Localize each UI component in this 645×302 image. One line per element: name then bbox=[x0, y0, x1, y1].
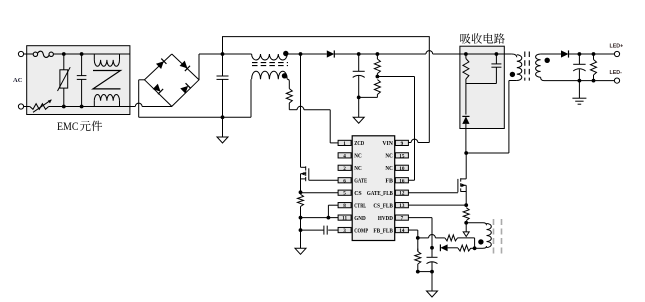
U1 pin 8 box bbox=[338, 203, 351, 208]
svg-text:LED-: LED- bbox=[610, 70, 623, 76]
U1 pin 9 box bbox=[395, 140, 408, 145]
bridge diode D4 bbox=[180, 83, 190, 93]
wire primary return bbox=[508, 81, 510, 154]
svg-text:13: 13 bbox=[399, 203, 405, 209]
wire bbox=[458, 237, 475, 239]
wire CTRL bbox=[328, 204, 338, 206]
svg-text:COMP: COMP bbox=[354, 227, 368, 234]
capacitor C3 out bbox=[578, 54, 580, 64]
node bbox=[430, 270, 434, 274]
svg-text:GATE_FLB: GATE_FLB bbox=[367, 190, 394, 197]
diode D7 bbox=[440, 244, 447, 251]
svg-text:CS: CS bbox=[354, 190, 362, 197]
svg-text:NC: NC bbox=[385, 165, 393, 172]
U1 pin 13 box bbox=[395, 203, 408, 208]
U1 pin 5 box bbox=[338, 190, 351, 195]
T2 aux winding bbox=[466, 222, 483, 224]
fuse F1 bbox=[33, 52, 37, 56]
earth ground bbox=[578, 81, 580, 99]
node bbox=[221, 52, 225, 56]
node bbox=[221, 115, 225, 119]
bridge diode D2 bbox=[180, 61, 190, 71]
U1 pin 7 box bbox=[395, 215, 408, 220]
svg-text:AC: AC bbox=[13, 77, 23, 84]
svg-text:VIN: VIN bbox=[382, 140, 393, 147]
capacitor C_comp bbox=[328, 229, 338, 231]
resistor R_cs bbox=[298, 194, 304, 206]
node bbox=[376, 52, 380, 56]
node bbox=[592, 52, 596, 56]
U1 pin 6 box bbox=[338, 178, 351, 183]
U1 pin 4 box bbox=[338, 153, 351, 158]
wire CS_FLB bbox=[408, 204, 466, 206]
wire bbox=[418, 271, 432, 273]
resistor R_out bbox=[593, 54, 595, 60]
U1 pin 12 box bbox=[395, 190, 408, 195]
svg-text:GATE: GATE bbox=[354, 178, 367, 185]
node bbox=[495, 52, 499, 56]
node bbox=[464, 203, 468, 207]
node bbox=[473, 246, 477, 250]
svg-text:8: 8 bbox=[343, 203, 346, 209]
wire HVDD bbox=[408, 217, 432, 219]
terminal LED- bbox=[614, 78, 619, 83]
node bbox=[430, 246, 434, 250]
node bbox=[299, 52, 303, 56]
wire bbox=[545, 53, 561, 55]
node T1 aux dot bbox=[282, 73, 287, 78]
svg-text:4: 4 bbox=[343, 153, 346, 159]
node bbox=[62, 105, 66, 109]
svg-text:16: 16 bbox=[399, 178, 405, 184]
node bbox=[299, 216, 303, 220]
wire FB_FLB bbox=[408, 229, 417, 231]
capacitor C2 bbox=[358, 54, 360, 71]
wire gnd bus bbox=[300, 207, 302, 249]
wire bbox=[287, 53, 327, 55]
capacitor CX1 bbox=[81, 54, 83, 76]
node bbox=[357, 96, 361, 100]
wire bbox=[24, 53, 34, 55]
node bbox=[464, 52, 468, 56]
node bbox=[299, 190, 303, 194]
terminal AC N bbox=[18, 104, 23, 109]
svg-text:EMC: EMC bbox=[57, 119, 79, 133]
wire gate FLB bbox=[408, 192, 458, 194]
wire CS bbox=[301, 192, 339, 194]
wire VIN rail bbox=[223, 37, 430, 143]
wire VIN bbox=[408, 142, 411, 144]
svg-text:NC: NC bbox=[354, 153, 362, 160]
mosfet Q2 bbox=[465, 153, 467, 179]
node bbox=[376, 75, 380, 79]
varistor RV1 bbox=[63, 54, 65, 70]
svg-text:NC: NC bbox=[385, 153, 393, 160]
node bbox=[62, 52, 66, 56]
T1 core bbox=[252, 62, 288, 64]
U1 pin 16 box bbox=[395, 178, 408, 183]
ground bbox=[222, 117, 224, 137]
capacitor C_sn bbox=[495, 54, 497, 64]
U1 pin 15 box bbox=[395, 153, 408, 158]
capacitor C1 bbox=[222, 54, 224, 76]
T2 aux core bbox=[493, 219, 495, 255]
inductor T1 primary bbox=[252, 54, 288, 60]
wire FB bbox=[377, 76, 414, 78]
node bbox=[80, 52, 84, 56]
node bbox=[357, 52, 361, 56]
svg-text:HVDD: HVDD bbox=[378, 215, 393, 222]
resistor R_a1 bbox=[445, 235, 458, 241]
bridge frame bbox=[145, 54, 200, 106]
T2 secondary bbox=[536, 54, 541, 77]
node bbox=[578, 52, 582, 56]
resistor R_fbdn bbox=[417, 249, 419, 252]
svg-text:2: 2 bbox=[343, 166, 346, 172]
U1 pin 1 box bbox=[338, 140, 351, 145]
node bbox=[464, 151, 468, 155]
ground bbox=[295, 248, 306, 254]
bridge diode D3 bbox=[153, 84, 163, 94]
choke core Z bbox=[93, 71, 121, 89]
wire bbox=[287, 79, 289, 88]
wire GND pin bbox=[301, 217, 339, 219]
snubber block bbox=[460, 46, 504, 128]
node bbox=[299, 228, 303, 232]
wire main rail bbox=[334, 53, 426, 55]
svg-text:15: 15 bbox=[399, 153, 405, 159]
node bbox=[416, 270, 420, 274]
node T1 dot bbox=[283, 51, 288, 56]
svg-text:11: 11 bbox=[342, 216, 347, 222]
svg-text:12: 12 bbox=[399, 191, 405, 197]
T2 core bbox=[524, 52, 526, 81]
U1 pin 10 box bbox=[395, 165, 408, 170]
wire bottom rail bbox=[139, 116, 251, 118]
choke L1 bottom winding bbox=[94, 95, 119, 101]
bridge diode D1 bbox=[156, 59, 166, 69]
resistor R_sn bbox=[465, 54, 467, 59]
svg-text:3: 3 bbox=[343, 228, 346, 234]
ground bbox=[358, 97, 360, 117]
wire bbox=[24, 106, 30, 108]
svg-text:1: 1 bbox=[343, 141, 346, 147]
resistor R_csflb bbox=[463, 208, 469, 221]
resistor R_a2 bbox=[458, 245, 471, 251]
thermistor RT1 bbox=[30, 104, 49, 110]
node T2 pri dot bbox=[510, 72, 515, 77]
IC U1 body bbox=[352, 136, 395, 241]
svg-text:5: 5 bbox=[343, 191, 346, 197]
resistor R_zcd bbox=[286, 89, 292, 103]
wire bbox=[198, 54, 200, 80]
svg-text:LED+: LED+ bbox=[610, 43, 624, 49]
svg-text:NC: NC bbox=[354, 165, 362, 172]
inductor T1 aux bbox=[252, 71, 288, 79]
wire bbox=[53, 53, 129, 55]
resistor R_fb1 bbox=[376, 54, 378, 59]
terminal AC L bbox=[18, 51, 23, 56]
U1 pin 14 box bbox=[395, 227, 408, 232]
T2 primary bbox=[512, 54, 517, 57]
svg-text:9: 9 bbox=[401, 141, 404, 147]
wire aux fb bbox=[418, 237, 429, 239]
node bbox=[327, 216, 331, 220]
diode D5 boost bbox=[327, 50, 335, 57]
node bbox=[80, 105, 84, 109]
wire bbox=[466, 83, 497, 85]
node bbox=[592, 79, 596, 83]
wire bbox=[49, 106, 136, 108]
svg-text:CS_FLB: CS_FLB bbox=[373, 202, 393, 209]
choke L1 top winding bbox=[93, 54, 95, 60]
node bbox=[464, 221, 468, 225]
wire bbox=[544, 80, 614, 82]
node T2 aux dot bbox=[478, 239, 483, 244]
wire gate bbox=[309, 179, 338, 181]
resistor R_fb2 bbox=[374, 80, 380, 95]
wire bbox=[568, 53, 614, 55]
EMC filter block bbox=[27, 46, 130, 115]
svg-text:7: 7 bbox=[401, 216, 404, 222]
ground bbox=[427, 291, 438, 297]
diode D_sn bbox=[465, 84, 467, 115]
ground arrow bbox=[465, 223, 467, 232]
svg-text:6: 6 bbox=[343, 178, 346, 184]
svg-text:ZCD: ZCD bbox=[354, 140, 364, 147]
svg-text:GND: GND bbox=[354, 215, 366, 222]
mosfet Q1 bbox=[300, 54, 302, 167]
U1 pin 3 box bbox=[338, 227, 351, 232]
svg-text:10: 10 bbox=[399, 166, 405, 172]
node T2 sec dot bbox=[545, 58, 550, 63]
svg-text:FB: FB bbox=[385, 178, 393, 185]
node bbox=[416, 236, 420, 240]
label 吸收电路 bbox=[460, 34, 470, 44]
diode D6 out bbox=[561, 50, 569, 57]
U1 pin 11 box bbox=[338, 215, 351, 220]
svg-text:FB_FLB: FB_FLB bbox=[373, 227, 393, 234]
wire bbox=[139, 79, 145, 81]
svg-text:14: 14 bbox=[399, 228, 405, 234]
wire ZCD path bbox=[288, 103, 290, 110]
terminal LED+ bbox=[614, 51, 619, 56]
capacitor C_hvdd bbox=[427, 256, 438, 258]
wire bbox=[460, 53, 466, 55]
node bbox=[578, 79, 582, 83]
svg-text:CTRL: CTRL bbox=[354, 202, 366, 209]
U1 pin 2 box bbox=[338, 165, 351, 170]
